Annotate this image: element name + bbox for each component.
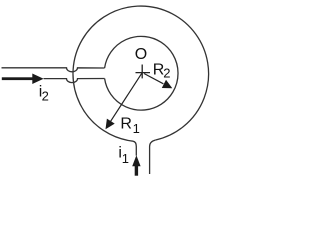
wire: bottom lead thin part from arrow tip to inner circle, hop over outer circle	[44, 79, 105, 83]
svg-text:1: 1	[122, 151, 129, 166]
current arrow i1 (thick, pointing up)	[132, 155, 140, 176]
svg-text:2: 2	[42, 88, 49, 103]
radius arrow R2 (from O to inner circle)	[144, 74, 172, 89]
wire: top lead from left edge to inner circle, hop over outer circle	[2, 68, 105, 72]
outer circle (radius R1 loop) with bottom gap	[73, 6, 209, 141]
node O: center cross mark	[136, 65, 151, 79]
inner circle (radius R2 loop) with left gap	[105, 36, 178, 110]
wire: left bottom lead corner into outer circle	[133, 141, 136, 155]
current arrow i2 (thick, pointing right)	[2, 74, 44, 85]
svg-text:R: R	[120, 115, 132, 132]
svg-text:1: 1	[133, 121, 140, 136]
radius arrow R1 (from O to outer circle)	[106, 73, 142, 129]
wire: right bottom lead from outer circle down	[150, 140, 156, 174]
svg-text:2: 2	[163, 65, 170, 80]
svg-text:O: O	[135, 46, 147, 63]
